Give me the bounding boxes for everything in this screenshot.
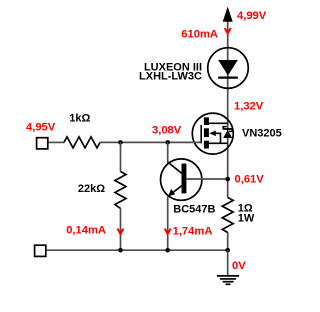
junction node D (22k / rail) [118,248,123,253]
MOSFET Q1 body diode [223,127,233,138]
wire: node B down to BJT collector [167,142,169,163]
svg-text:LXHL-LW3C: LXHL-LW3C [139,70,202,82]
transistor Q2 emitter diagonal with arrow [168,186,182,197]
MOSFET Q1 gate bar [200,125,202,143]
svg-text:4,95V: 4,95V [26,122,56,134]
wire: vertical rail from 1R resistor bottom to ground rail [227,233,229,251]
label 1,32V [234,101,264,113]
label LUXEON III LXHL-LW3C [139,62,202,83]
svg-text:VN3205: VN3205 [242,127,282,139]
label 0,14mA [66,224,106,236]
wire: from port P1 to resistor 1k [49,141,65,143]
current arrow 1,74mA [165,229,171,235]
svg-text:0V: 0V [232,260,246,272]
label 1,74mA [173,226,213,238]
wire: bottom rail from port P2 to ground column [47,249,228,251]
label BC547B [173,203,215,215]
resistor R3 1R zigzag [222,198,233,233]
junction node F (rail / ground) [225,248,230,253]
power supply arrow terminal 4,99V [223,7,233,22]
transistor Q2 base bar [182,164,187,194]
label 22k [78,183,105,195]
wire: resistor 22k down to bottom rail [120,209,122,251]
svg-text:0,14mA: 0,14mA [66,224,106,236]
label VN3205 [242,127,282,139]
svg-text:1kΩ: 1kΩ [69,113,90,125]
svg-text:3,08V: 3,08V [152,125,182,137]
resistor R2 22k zigzag [115,172,126,209]
svg-text:1,32V: 1,32V [234,101,264,113]
terminal port P2 (bottom left square) [35,245,46,256]
resistor R1 1k zigzag [64,137,100,148]
label 1R 1W [238,203,255,225]
label 610mA [181,29,218,41]
label 0,61V [235,174,265,186]
svg-text:610mA: 610mA [181,29,218,41]
current arrow 610mA [225,28,231,34]
current arrow 0,14mA [118,229,124,235]
MOSFET Q1 VN3205 circle [192,113,233,154]
label 1k [69,113,90,125]
junction node B (gate wire / BJT collector) [165,140,170,145]
LED D1 LUXEON III circle [208,48,249,89]
MOSFET Q1 body arrow [209,131,220,144]
svg-text:BC547B: BC547B [173,203,215,215]
MOSFET Q1 source lead [208,142,228,144]
transistor Q2 base lead to node 0,61V [186,178,227,180]
wire: node A down to resistor 22k [120,142,122,171]
svg-text:22kΩ: 22kΩ [78,183,105,195]
MOSFET Q1 channel bars [204,117,209,148]
transistor Q2 collector diagonal [168,162,182,173]
junction node A (1k / 22k) [118,140,123,145]
wire: vertical rail segment node to 1R resistor top [227,179,229,198]
label 3,08V [152,125,182,137]
wire: main vertical rail from supply arrow through LED and MOSFET to node at 0,61V [227,20,229,179]
label 0V [232,260,246,272]
junction node E (emitter / rail) [165,248,170,253]
svg-text:1,74mA: 1,74mA [173,226,213,238]
svg-text:0,61V: 0,61V [235,174,265,186]
label 4,99V [237,10,267,22]
transistor Q2 BC547B circle [161,159,202,200]
LED D1 triangle and cathode bar [218,60,238,78]
wire: BJT emitter down to bottom rail [167,197,169,251]
wire: from resistor 1k to MOSFET gate [100,141,201,143]
ground symbol [217,250,239,284]
terminal port P1 (top left square) [37,138,48,149]
svg-text:4,99V: 4,99V [237,10,267,22]
label 4,95V [26,122,56,134]
svg-text:1W: 1W [238,213,255,225]
junction node C (0,61V) [225,177,230,182]
MOSFET Q1 drain lead [208,122,228,124]
